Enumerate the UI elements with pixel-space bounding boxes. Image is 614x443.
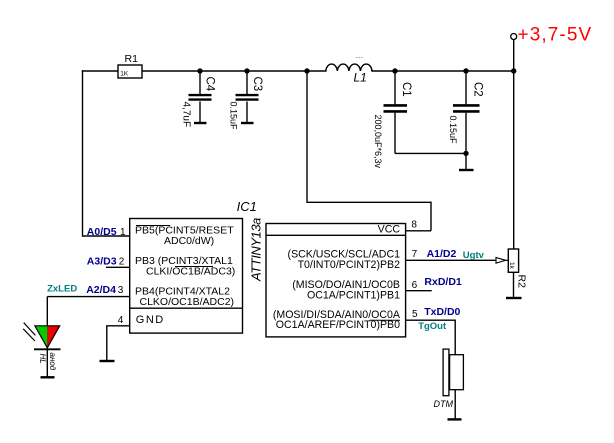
pin 5 lead [406,320,456,355]
svg-text:C1: C1 [400,82,412,97]
ground (C4) [194,122,207,124]
wire LED to ground [46,349,48,377]
svg-text:RxD/D1: RxD/D1 [424,276,462,288]
svg-text:200,0uF*6,3v: 200,0uF*6,3v [373,115,383,169]
svg-text:DTM: DTM [434,399,454,409]
svg-text:3: 3 [118,285,124,296]
svg-text:4,7uF: 4,7uF [180,102,191,128]
svg-text:8: 8 [411,220,417,231]
svg-text:R1: R1 [125,53,139,65]
inductor L1 [326,50,372,84]
ground (LED) [41,376,55,378]
capacitor C4 [180,71,215,127]
wire C1 bottom to C2 bottom [395,152,466,154]
svg-text:ATTINY13a: ATTINY13a [249,218,264,282]
svg-text:6: 6 [412,280,418,291]
resistor R2 (pot) [508,249,528,298]
ground (C2) [459,169,474,171]
svg-text:L1: L1 [354,70,367,84]
svg-text:4: 4 [118,315,124,326]
svg-text:CLKI/OC1B/ADC3): CLKI/OC1B/ADC3) [146,265,235,277]
svg-text:+3,7-5V: +3,7-5V [518,24,593,45]
svg-text:0.15uF: 0.15uF [228,102,238,131]
wire right vertical rail to R2 [513,71,515,249]
pin 4 lead and GND wire [107,326,130,361]
wire VCC pin8 trace [307,71,431,231]
buzzer DTM [434,349,464,409]
node junction R2-branch/rail [511,68,516,73]
pin 6 lead [406,290,432,292]
node junction C4/rail [197,68,202,73]
node C1/C2 junction [463,151,468,156]
IC1 right box pin names [273,224,401,331]
pin 2 lead [106,266,130,268]
ground (DTM) [448,418,462,420]
node junction C2/rail [463,68,468,73]
wire top rail mid segment [142,70,326,72]
svg-text:ZxLED: ZxLED [47,284,77,295]
svg-text:C2: C2 [472,82,484,97]
pin 8 lead [406,230,431,232]
svg-text:7: 7 [412,249,418,260]
capacitor C2 [448,71,483,170]
svg-text:VCC: VCC [378,224,401,236]
svg-text:GND: GND [136,314,165,326]
node junction C3/rail [244,68,249,73]
wiper arrow into R2 [496,258,506,264]
svg-text:R2: R2 [516,275,528,289]
svg-text:C4: C4 [204,77,216,92]
wire DTM to ground [454,390,456,420]
svg-text:HL: HL [38,354,47,364]
svg-text:...: ... [356,50,364,60]
pin 7 lead [406,259,497,261]
svg-text:IC1: IC1 [237,199,257,214]
pin 3 lead [47,296,129,298]
svg-text:A1/D2: A1/D2 [427,248,457,260]
power terminal +3,7-5V (node +V) [511,24,593,71]
pin 1 number and label A0/D5 [87,226,126,238]
svg-text:2: 2 [119,256,125,267]
svg-text:1k: 1k [508,262,515,270]
svg-text:T0/INT0/PCINT2)PB2: T0/INT0/PCINT2)PB2 [298,259,401,271]
IC IC1 (ATTINY13a) right section: pins VCC/PB2/PB1/PB0 [266,224,406,337]
svg-text:A2/D4: A2/D4 [86,284,116,296]
svg-text:анод: анод [48,353,57,371]
node junction VCC-branch/rail [304,68,309,73]
svg-text:C3: C3 [251,77,263,92]
svg-text:1K: 1K [120,71,129,78]
capacitor C1 [373,71,412,169]
node junction C1/rail [392,68,397,73]
svg-text:A0/D5: A0/D5 [87,226,117,238]
wire LED drop [46,297,48,350]
IC1 left box pin names [135,225,235,326]
ground (C3) [241,122,254,124]
wire left vertical from R1 to pin1 [83,71,130,236]
svg-text:ADC0/dW): ADC0/dW) [164,235,214,247]
resistor R1 [118,53,142,78]
svg-text:OC1A/PCINT1)PB1: OC1A/PCINT1)PB1 [307,289,400,301]
wire top rail left segment [83,70,119,72]
svg-text:1: 1 [120,227,126,238]
svg-text:CLKO/OC1B/ADC2): CLKO/OC1B/ADC2) [140,296,235,308]
svg-text:5: 5 [412,309,418,320]
IC IC1 (ATTINY13a) left section: pins PB5/PB3/PB4/GND [130,199,264,333]
ground (R2) [506,297,522,299]
svg-text:TgOut: TgOut [418,321,447,332]
capacitor C3 [228,71,262,130]
svg-text:Ugtv: Ugtv [463,250,485,261]
ground (pin4) [100,360,115,362]
wire top rail right segment [372,70,514,72]
svg-text:TxD/D0: TxD/D0 [424,306,460,318]
LED HL bicolor [23,323,60,371]
svg-text:A3/D3: A3/D3 [87,255,117,267]
svg-text:0.15uF: 0.15uF [448,116,458,145]
